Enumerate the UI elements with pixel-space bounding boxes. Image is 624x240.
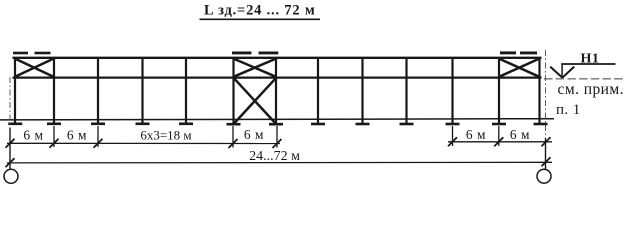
base plate 3 xyxy=(91,123,105,126)
column 1 xyxy=(14,57,16,124)
dashed level line to right edge xyxy=(544,78,623,80)
right axis dash-dot line xyxy=(545,50,547,138)
tick at x=233 dim1 xyxy=(229,139,238,148)
roof dashes above bay 1 xyxy=(13,52,51,55)
tick at x=277 dim1 xyxy=(273,139,282,148)
level mark vertical xyxy=(561,64,563,77)
left axis dash-dot line xyxy=(9,77,11,128)
column 11 xyxy=(451,57,453,124)
ground line xyxy=(0,119,554,120)
column 9 xyxy=(361,57,363,124)
extension line col7 xyxy=(276,126,278,148)
column 8 xyxy=(317,57,319,124)
column 10 xyxy=(405,57,407,124)
base plate 8 xyxy=(311,123,325,126)
tick at x=498.8 dim1 xyxy=(494,137,503,146)
tick at x=98 dim1 xyxy=(94,139,103,148)
X-brace bay 6 lower panel xyxy=(235,79,276,123)
tick at x=10 dim1 xyxy=(6,139,15,148)
base plate 9 xyxy=(356,123,370,126)
X-brace bay 6 top panel xyxy=(234,59,277,77)
extension line col11 xyxy=(452,126,454,146)
svg-text:Н1: Н1 xyxy=(581,51,600,66)
base plate 2 xyxy=(47,123,61,126)
column 6 xyxy=(232,57,234,124)
svg-text:24...72 м: 24...72 м xyxy=(249,149,300,164)
svg-text:6х3=18 м: 6х3=18 м xyxy=(140,128,191,143)
dimension line 1 right segment xyxy=(448,141,552,143)
H1 level mark horizontal line xyxy=(561,63,615,65)
tick at x=54 dim1 xyxy=(50,139,59,148)
tick at x=546 dim1 xyxy=(542,137,551,146)
level mark arrow V xyxy=(550,67,574,78)
title underline xyxy=(200,18,321,20)
column 12 xyxy=(498,57,500,124)
svg-text:L зд.=24 ... 72 м: L зд.=24 ... 72 м xyxy=(204,3,316,19)
tick at x=546 dim2 xyxy=(542,157,551,166)
svg-text:см. прим.: см. прим. xyxy=(558,81,624,98)
svg-text:6 м: 6 м xyxy=(510,127,530,142)
base plate 12 xyxy=(492,123,506,126)
dimension line 2 overall xyxy=(7,161,552,164)
base plate 4 xyxy=(136,123,150,126)
extension line col2 xyxy=(53,126,55,147)
svg-text:6 м: 6 м xyxy=(67,128,87,143)
tick at x=452.5 dim1 xyxy=(448,137,457,146)
extension line col6 xyxy=(232,126,234,148)
base plate 1 xyxy=(8,123,22,126)
left axis bubble xyxy=(4,169,18,183)
column 2 xyxy=(53,57,55,124)
extension line col3 xyxy=(97,126,99,147)
roof dashes above bay 12 xyxy=(500,51,537,54)
X-brace bay 12 top panel xyxy=(499,59,539,77)
top chord xyxy=(13,57,542,59)
column 13 xyxy=(538,57,540,124)
column 5 xyxy=(185,57,187,124)
extension line col12 xyxy=(498,126,500,146)
dimension line 1 left segment xyxy=(7,142,280,144)
roof dashes above bay 6 xyxy=(232,51,278,54)
svg-text:6 м: 6 м xyxy=(466,127,486,142)
left axis extension to bubble xyxy=(9,128,11,170)
base plate 13 xyxy=(534,123,548,126)
X-brace bay 1 top panel xyxy=(15,59,54,77)
base plate 6 xyxy=(227,123,241,126)
right axis extension to bubble xyxy=(545,138,547,170)
base plate 5 xyxy=(179,123,193,126)
column 7 xyxy=(275,57,277,124)
svg-text:6 м: 6 м xyxy=(23,128,43,143)
svg-text:п. 1: п. 1 xyxy=(556,102,581,118)
column 4 xyxy=(141,57,143,124)
base plate 10 xyxy=(400,123,414,126)
base plate 11 xyxy=(446,123,460,126)
bottom chord xyxy=(13,76,542,78)
column 3 xyxy=(97,57,99,124)
svg-text:6 м: 6 м xyxy=(244,127,264,142)
base plate 7 xyxy=(269,123,283,126)
right axis bubble xyxy=(537,169,551,183)
tick at x=10 dim2 xyxy=(6,158,15,167)
